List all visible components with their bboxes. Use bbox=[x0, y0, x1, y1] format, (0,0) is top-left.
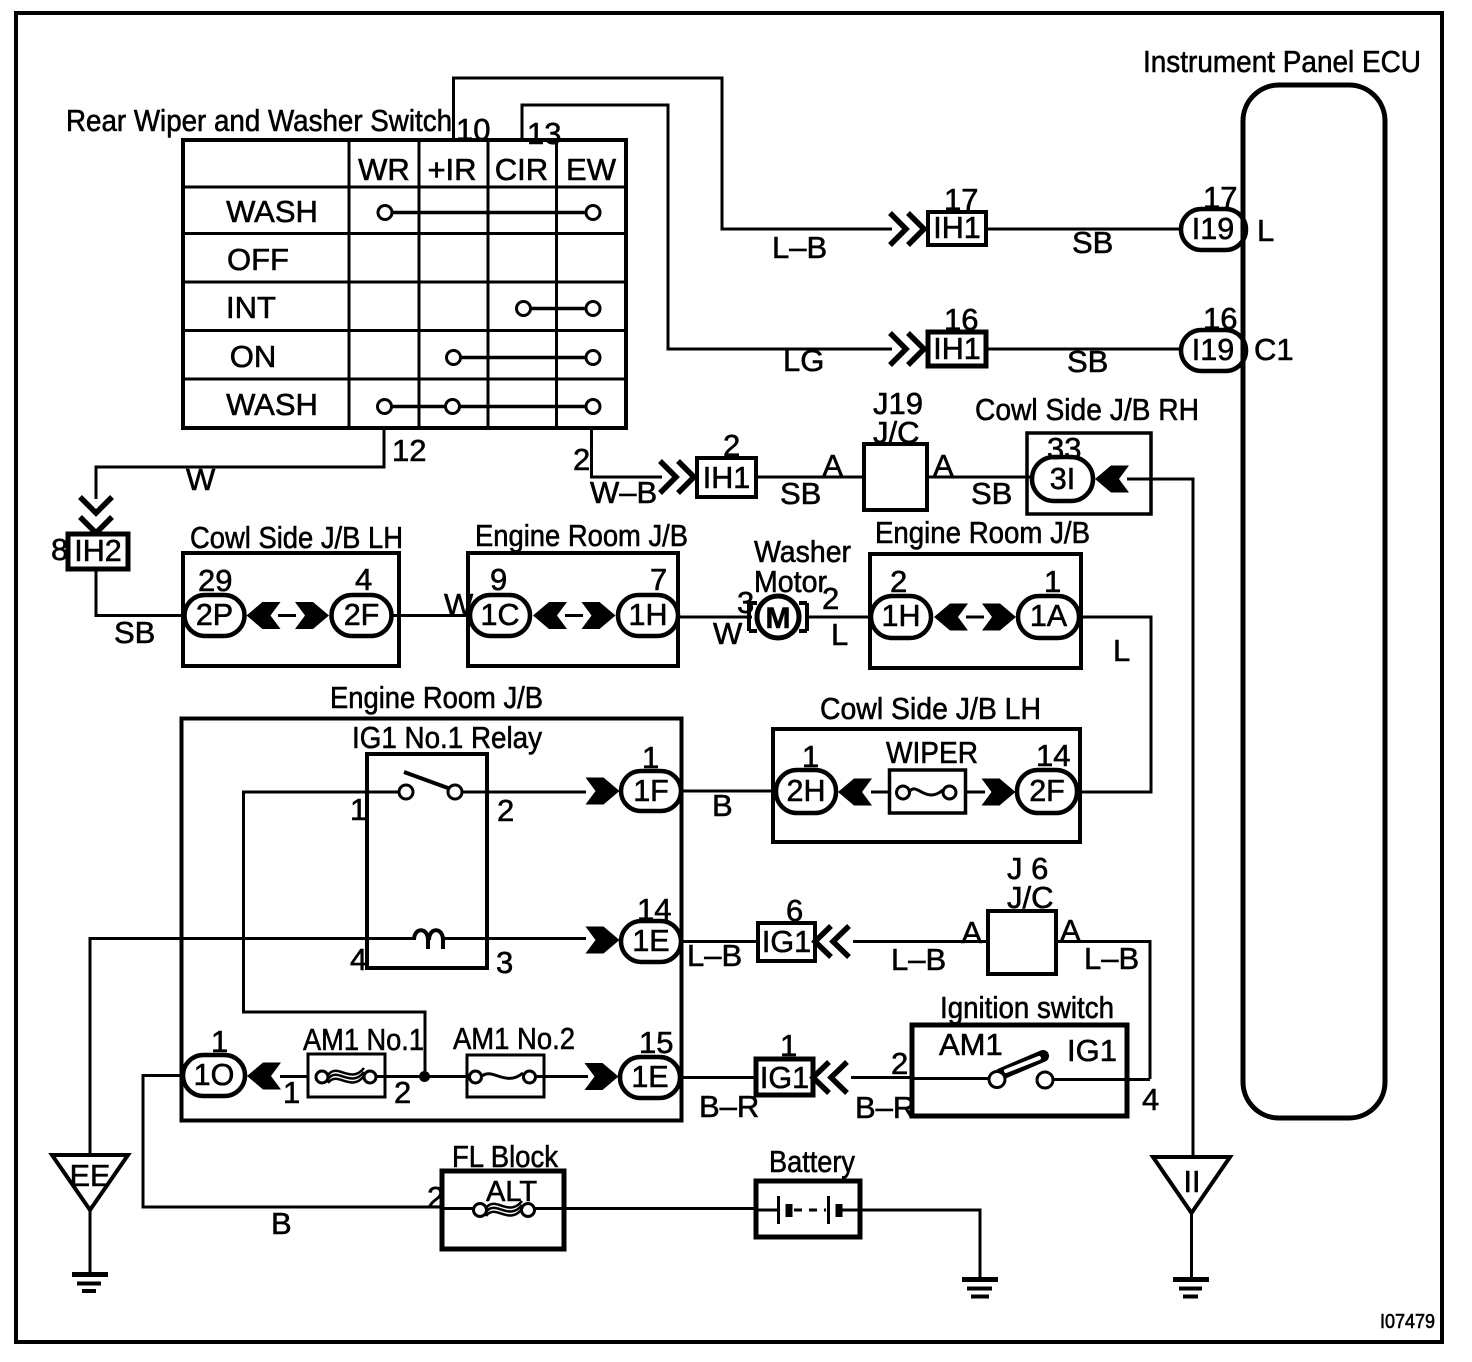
arrow into 1E pin 15 bbox=[585, 1063, 619, 1090]
arrow into IH1 pin 17 bbox=[890, 213, 924, 245]
svg-text:WR: WR bbox=[358, 152, 410, 187]
wire 2F to 1C, net W bbox=[392, 614, 473, 617]
svg-text:4: 4 bbox=[355, 562, 372, 597]
connector IG1 pin 1 bbox=[756, 1028, 813, 1095]
wire battery to ground bbox=[860, 1210, 980, 1277]
connector 1E pin 15 bbox=[620, 1025, 680, 1098]
svg-text:W–B: W–B bbox=[590, 475, 657, 510]
arrow at 2H bbox=[838, 779, 872, 806]
junction block Engine Room J/B bbox=[468, 518, 688, 666]
wire motor to 1H, net L bbox=[806, 616, 875, 619]
svg-text:AM1 No.2: AM1 No.2 bbox=[453, 1021, 575, 1056]
wire relay coil to 1E and EE branch bbox=[90, 939, 367, 1156]
connector 2F pin 14 bbox=[1017, 738, 1077, 813]
wire coil right to 1E bbox=[487, 937, 586, 940]
svg-text:1: 1 bbox=[350, 792, 367, 827]
svg-text:3I: 3I bbox=[1050, 462, 1075, 496]
svg-text:L: L bbox=[1113, 633, 1130, 668]
svg-text:SB: SB bbox=[114, 615, 155, 650]
svg-text:Motor: Motor bbox=[754, 564, 827, 599]
svg-text:2: 2 bbox=[497, 793, 514, 828]
wire 1H to washer motor, net W bbox=[678, 616, 752, 619]
wire IH2 to 2P, net SB bbox=[96, 569, 186, 616]
wire IH1 to I19, net SB bbox=[986, 228, 1183, 231]
svg-text:1O: 1O bbox=[194, 1058, 235, 1092]
wire 2H arrow to fuse bbox=[871, 791, 896, 794]
svg-text:AM1 No.1: AM1 No.1 bbox=[303, 1022, 424, 1057]
svg-text:INT: INT bbox=[226, 290, 276, 325]
svg-text:17: 17 bbox=[1203, 180, 1237, 215]
arrow at 1O bbox=[247, 1063, 281, 1090]
svg-text:Engine Room J/B: Engine Room J/B bbox=[330, 680, 543, 715]
connector arrow pair 1H-1A bbox=[934, 604, 1016, 631]
svg-text:Cowl Side J/B RH: Cowl Side J/B RH bbox=[975, 392, 1199, 427]
svg-text:13: 13 bbox=[527, 116, 561, 151]
connector arrow pair 2P-2F bbox=[247, 602, 330, 629]
connector IH1 pin 17 bbox=[928, 182, 986, 245]
switch SW1 Rear Wiper and Washer Switch bbox=[66, 103, 626, 428]
fuse AM1 No.1 (fusible link) bbox=[303, 1022, 424, 1110]
wire arrow to fuse AM1 No.1 bbox=[280, 1075, 316, 1078]
svg-text:L: L bbox=[1257, 213, 1274, 248]
wire from pin 2 to IH1 pin 2, net W-B bbox=[592, 428, 663, 477]
connector 1E pin 14 bbox=[621, 892, 681, 962]
svg-text:L–B: L–B bbox=[687, 938, 742, 973]
svg-text:2: 2 bbox=[822, 581, 839, 616]
svg-text:A: A bbox=[961, 915, 982, 950]
arrow at 3I bbox=[1095, 466, 1129, 493]
svg-text:L–B: L–B bbox=[891, 942, 946, 977]
svg-text:CIR: CIR bbox=[495, 152, 548, 187]
connector I19 pin 16 bbox=[1181, 301, 1246, 371]
arrow out of IG1 pin 6 bbox=[815, 926, 849, 957]
svg-text:33: 33 bbox=[1047, 431, 1081, 466]
svg-text:OFF: OFF bbox=[227, 242, 289, 277]
svg-text:Rear Wiper and Washer Switch: Rear Wiper and Washer Switch bbox=[66, 103, 452, 138]
svg-text:2F: 2F bbox=[344, 598, 380, 632]
svg-text:L–B: L–B bbox=[772, 230, 827, 265]
svg-text:16: 16 bbox=[1203, 301, 1237, 336]
wire 1A to 2F pin 14, net L bbox=[1078, 617, 1151, 792]
svg-text:16: 16 bbox=[944, 302, 978, 337]
svg-text:A: A bbox=[822, 448, 843, 483]
svg-text:14: 14 bbox=[1036, 738, 1070, 773]
svg-text:I07479: I07479 bbox=[1380, 1311, 1435, 1333]
svg-text:1E: 1E bbox=[632, 924, 669, 958]
svg-text:Instrument Panel ECU: Instrument Panel ECU bbox=[1143, 44, 1421, 79]
svg-text:2: 2 bbox=[890, 564, 907, 599]
svg-text:+IR: +IR bbox=[427, 152, 476, 187]
wire relay pin 1 to junction bbox=[244, 792, 426, 1071]
arrow into IH2 bbox=[80, 497, 112, 533]
switch contacts row WASH (upper) bbox=[378, 206, 600, 220]
svg-text:1A: 1A bbox=[1030, 599, 1068, 633]
svg-text:Ignition switch: Ignition switch bbox=[940, 990, 1114, 1025]
svg-text:7: 7 bbox=[650, 562, 667, 597]
svg-text:Engine Room J/B: Engine Room J/B bbox=[875, 515, 1090, 550]
relay IG1 No.1 Relay bbox=[350, 720, 542, 980]
svg-text:L–B: L–B bbox=[1084, 941, 1139, 976]
svg-text:1H: 1H bbox=[882, 599, 921, 633]
svg-text:1: 1 bbox=[283, 1075, 300, 1110]
junction block Engine Room J/B (second) bbox=[870, 515, 1090, 668]
junction block Engine Room J/B (main) bbox=[182, 680, 682, 1121]
svg-text:C1: C1 bbox=[1254, 332, 1294, 367]
fuse AM1 No.2 bbox=[453, 1021, 575, 1097]
motor M1 Washer Motor bbox=[737, 534, 851, 638]
svg-text:I19: I19 bbox=[1192, 333, 1234, 367]
wire 1F to 2H, net B bbox=[681, 790, 778, 793]
svg-text:9: 9 bbox=[490, 562, 507, 597]
svg-text:IH1: IH1 bbox=[703, 461, 750, 495]
svg-text:1F: 1F bbox=[633, 774, 669, 808]
wire from pin 12 to IH2, net W bbox=[96, 428, 384, 499]
wire FL Block to Battery bbox=[564, 1207, 758, 1210]
wire from pin 10 to IH1 pin 17, net L-B bbox=[454, 78, 893, 229]
svg-text:AM1: AM1 bbox=[939, 1027, 1003, 1062]
wire 1E to IG1 pin 6, net L-B bbox=[681, 940, 758, 943]
svg-text:1E: 1E bbox=[631, 1060, 668, 1094]
svg-text:IH1: IH1 bbox=[933, 332, 980, 366]
svg-text:3: 3 bbox=[496, 945, 513, 980]
connector 1H pin 7 bbox=[618, 562, 678, 636]
svg-text:B–R: B–R bbox=[855, 1090, 915, 1125]
switch contacts row ON bbox=[447, 351, 601, 365]
switch SW2 Ignition switch bbox=[912, 990, 1127, 1116]
svg-text:WIPER: WIPER bbox=[886, 735, 978, 770]
svg-text:WASH: WASH bbox=[226, 194, 318, 229]
battery BAT bbox=[756, 1144, 860, 1237]
fusible link FL Block ALT bbox=[442, 1139, 564, 1249]
connector IG1 pin 6 bbox=[758, 893, 815, 961]
svg-text:SB: SB bbox=[780, 476, 821, 511]
svg-text:I19: I19 bbox=[1192, 212, 1234, 246]
ground (EE) bbox=[72, 1275, 108, 1292]
ground point EE bbox=[52, 1155, 128, 1210]
fuse WIPER bbox=[886, 735, 978, 813]
svg-text:WASH: WASH bbox=[226, 387, 318, 422]
svg-text:1: 1 bbox=[642, 740, 659, 775]
svg-text:1: 1 bbox=[211, 1024, 228, 1059]
svg-text:W: W bbox=[186, 462, 216, 497]
arrow into 1E bbox=[586, 927, 620, 954]
wire ignition switch pin 4 bbox=[1127, 1078, 1150, 1081]
arrow out of IG1 pin 1 bbox=[813, 1062, 847, 1093]
junction block Cowl Side J/B LH (second) bbox=[773, 691, 1080, 842]
wire 1O to FL Block, net B bbox=[143, 1076, 448, 1208]
svg-text:Battery: Battery bbox=[769, 1144, 855, 1179]
svg-text:IG1: IG1 bbox=[762, 925, 811, 959]
connector 1A pin 1 bbox=[1018, 564, 1079, 638]
wire II to ground bbox=[1190, 1213, 1193, 1277]
arrow into IH1 pin 16 bbox=[890, 333, 924, 365]
ground (battery) bbox=[962, 1280, 998, 1297]
connector IH2 pin 8 bbox=[51, 532, 128, 569]
wire IG1 to ignition switch, net B-R bbox=[851, 1076, 912, 1079]
svg-text:4: 4 bbox=[1142, 1082, 1159, 1117]
wire relay pin 2 to 1F bbox=[461, 791, 586, 794]
junction connector J6 J/C bbox=[961, 851, 1081, 974]
connector I19 pin 17 bbox=[1181, 180, 1246, 250]
svg-text:6: 6 bbox=[786, 893, 803, 928]
svg-text:Cowl Side J/B LH: Cowl Side J/B LH bbox=[820, 691, 1041, 726]
svg-text:II: II bbox=[1184, 1165, 1201, 1199]
junction block Cowl Side J/B RH bbox=[975, 392, 1199, 514]
wire IH1 to I19, net SB bbox=[986, 348, 1183, 351]
svg-text:29: 29 bbox=[198, 563, 232, 598]
junction node bbox=[419, 1071, 430, 1082]
switch contacts row INT bbox=[517, 302, 601, 316]
connector 1C pin 9 bbox=[470, 562, 530, 636]
svg-text:2H: 2H bbox=[787, 774, 826, 808]
svg-text:1C: 1C bbox=[481, 598, 520, 632]
svg-text:10: 10 bbox=[456, 112, 490, 147]
svg-text:IG1: IG1 bbox=[760, 1061, 809, 1095]
svg-text:B–R: B–R bbox=[699, 1089, 759, 1124]
svg-text:IG1: IG1 bbox=[1067, 1033, 1117, 1068]
connector 2P pin 29 bbox=[185, 563, 245, 636]
svg-text:SB: SB bbox=[971, 476, 1012, 511]
connector arrow pair 1C-1H bbox=[533, 602, 616, 629]
svg-text:3: 3 bbox=[737, 585, 754, 620]
connector 1F pin 1 bbox=[621, 740, 681, 811]
svg-text:15: 15 bbox=[639, 1025, 673, 1060]
svg-text:1: 1 bbox=[802, 739, 819, 774]
wire AM1 No.2 to 1E bbox=[536, 1075, 588, 1078]
svg-text:M: M bbox=[766, 602, 791, 635]
ground (II) bbox=[1173, 1280, 1209, 1297]
svg-text:2P: 2P bbox=[196, 598, 233, 632]
svg-text:EW: EW bbox=[566, 152, 617, 187]
junction connector J19 J/C bbox=[822, 386, 954, 510]
connector IH1 pin 2 bbox=[697, 428, 756, 497]
svg-text:12: 12 bbox=[392, 433, 426, 468]
svg-text:ON: ON bbox=[230, 339, 277, 374]
arrow into IH1 pin 2 bbox=[660, 461, 694, 493]
wire from pin 13 to IH1 pin 16, net LG bbox=[522, 105, 892, 349]
svg-text:2F: 2F bbox=[1029, 774, 1065, 808]
wire IG1 to J6, net L-B bbox=[853, 940, 990, 943]
wire EE to ground bbox=[89, 1210, 92, 1272]
svg-text:LG: LG bbox=[783, 343, 824, 378]
wire 3I to ground II bbox=[1127, 479, 1193, 1157]
connector 1O pin 1 bbox=[183, 1024, 245, 1096]
svg-text:8: 8 bbox=[51, 532, 68, 567]
svg-text:EE: EE bbox=[70, 1159, 111, 1193]
svg-text:L: L bbox=[831, 617, 848, 652]
svg-text:Engine Room J/B: Engine Room J/B bbox=[475, 518, 688, 553]
svg-text:17: 17 bbox=[944, 182, 978, 217]
wire fuse to 2F arrow bbox=[966, 791, 985, 794]
svg-text:SB: SB bbox=[1072, 225, 1113, 260]
wire J6 to ignition switch, net L-B bbox=[1056, 942, 1150, 1080]
ground point II bbox=[1153, 1157, 1230, 1213]
svg-text:B: B bbox=[271, 1206, 292, 1241]
arrow into 1F bbox=[586, 778, 620, 805]
svg-text:SB: SB bbox=[1067, 344, 1108, 379]
wire 1E to IG1 pin 1, net B-R bbox=[680, 1076, 756, 1079]
svg-text:1: 1 bbox=[780, 1028, 797, 1063]
wire AM1 No.1 to AM1 No.2 bbox=[376, 1075, 473, 1078]
svg-text:Cowl Side J/B LH: Cowl Side J/B LH bbox=[190, 520, 403, 555]
svg-text:1: 1 bbox=[1044, 564, 1061, 599]
junction block Cowl Side J/B LH bbox=[183, 520, 403, 666]
connector 2H pin 1 bbox=[776, 739, 836, 813]
connector IH1 pin 16 bbox=[928, 302, 986, 366]
svg-text:2: 2 bbox=[573, 442, 590, 477]
wire IH1 to J19, net SB bbox=[756, 476, 866, 479]
switch contacts row WASH (lower) bbox=[378, 400, 601, 414]
svg-text:B: B bbox=[712, 788, 733, 823]
svg-text:IG1 No.1 Relay: IG1 No.1 Relay bbox=[352, 720, 542, 755]
svg-text:2: 2 bbox=[394, 1075, 411, 1110]
connector 3I pin 33 bbox=[1032, 431, 1093, 501]
svg-text:IH2: IH2 bbox=[74, 534, 121, 568]
wire J19 to 3I, net SB bbox=[927, 476, 1034, 479]
arrow into 2F bbox=[982, 779, 1016, 806]
svg-text:1H: 1H bbox=[629, 598, 668, 632]
svg-text:2: 2 bbox=[891, 1046, 908, 1081]
ECU U1 Instrument Panel ECU bbox=[1143, 44, 1421, 1118]
svg-text:2: 2 bbox=[723, 428, 740, 463]
svg-text:14: 14 bbox=[637, 892, 671, 927]
connector 2F pin 4 bbox=[332, 562, 392, 636]
svg-text:4: 4 bbox=[350, 942, 367, 977]
connector 1H pin 2 bbox=[871, 564, 931, 638]
svg-text:W: W bbox=[713, 616, 743, 651]
